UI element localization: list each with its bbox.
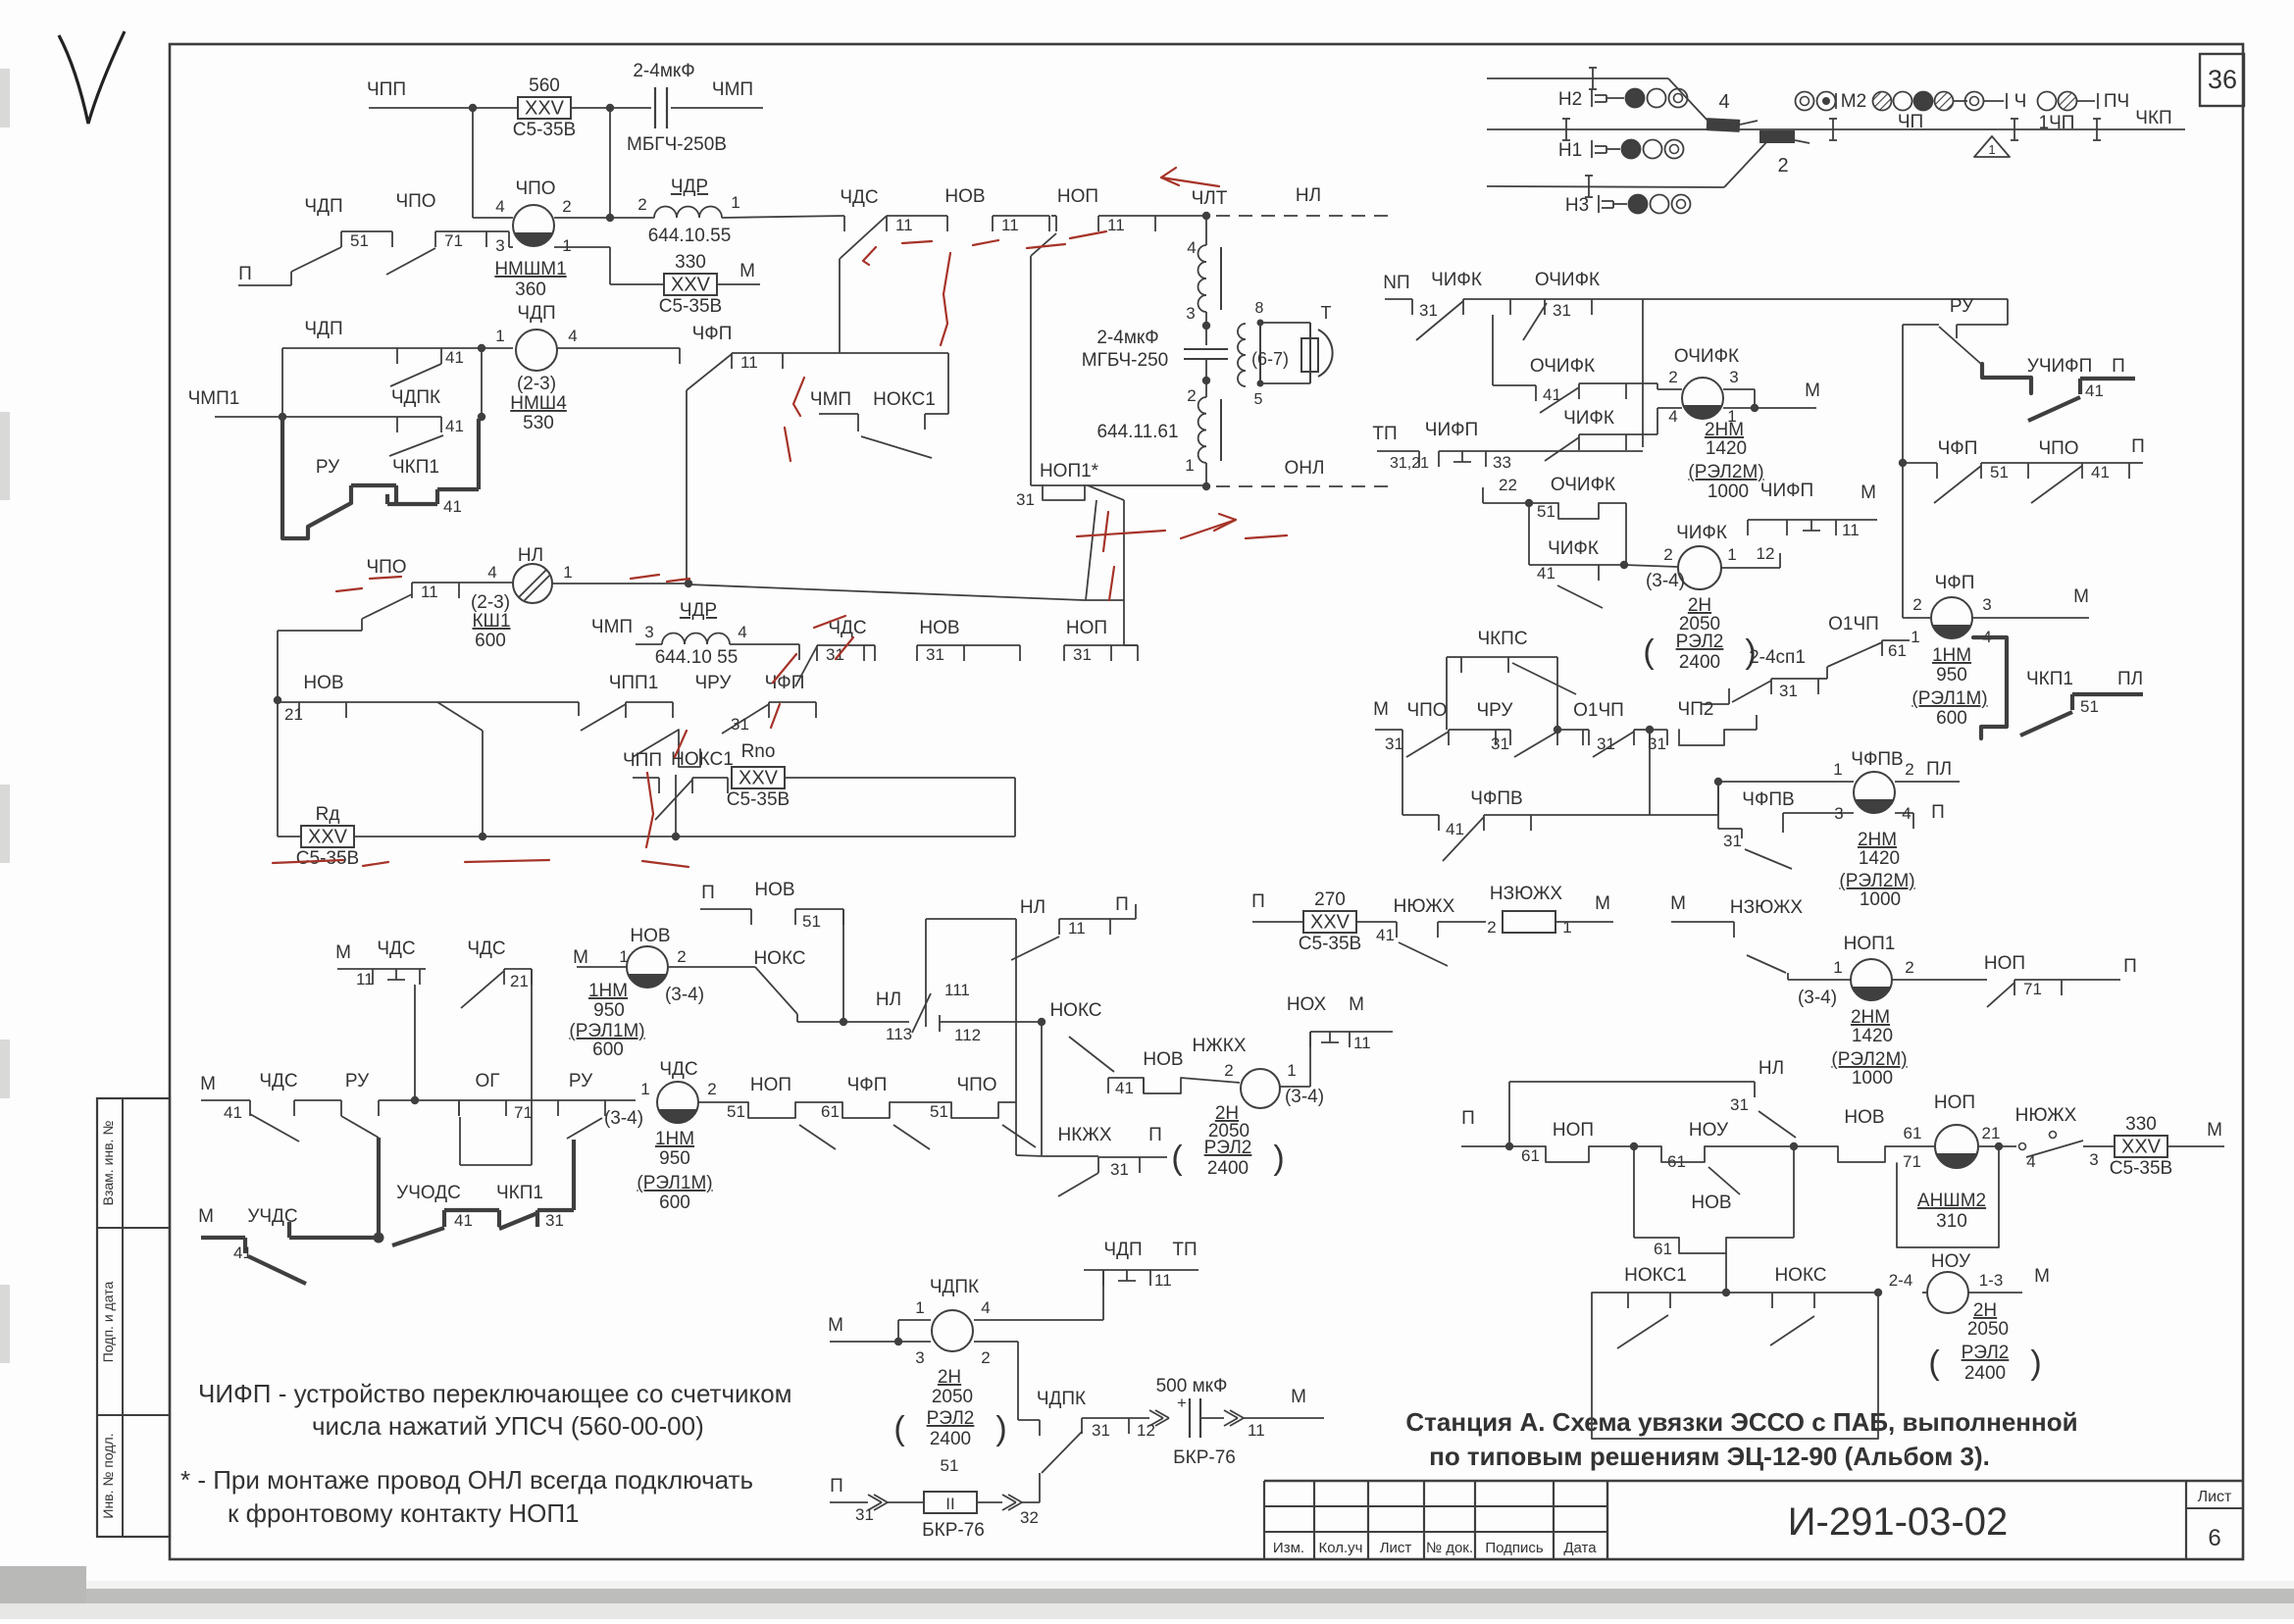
svg-text:51: 51 [727, 1102, 745, 1121]
junction after НОП 21 [1978, 1145, 1999, 1147]
svg-text:2400: 2400 [1679, 652, 1720, 673]
wire НЖКХ pin 1 to НОХ [1280, 1086, 1310, 1088]
svg-text:2: 2 [1224, 1061, 1233, 1080]
wire relay ЧДП pin 4 to ЧФП 11 [557, 347, 680, 349]
svg-text:2: 2 [637, 195, 646, 214]
svg-text:8: 8 [1255, 300, 1264, 317]
svg-text:41: 41 [2085, 381, 2104, 400]
svg-text:УЧИФП: УЧИФП [2027, 356, 2093, 377]
wire NП [1385, 298, 1412, 300]
junction НЛ blade [1790, 1142, 1798, 1150]
svg-text:ЧФП: ЧФП [1938, 438, 1978, 459]
svg-text:П: П [1251, 891, 1265, 912]
transformer secondary coil 6-7 with dots 8 and 5 [1238, 324, 1246, 386]
wire М [337, 968, 373, 970]
svg-text:560: 560 [529, 76, 560, 96]
svg-text:51: 51 [1537, 502, 1555, 521]
junction НОП-НОУ [1589, 1145, 1634, 1147]
wire ЧФП pin 3 to М [1973, 617, 2089, 619]
junction ЧИФК-41 [1599, 564, 1624, 566]
svg-text:ЧДС: ЧДС [840, 187, 878, 208]
svg-text:(2-3): (2-3) [471, 592, 510, 613]
red diagonals at ЧДС-31 [773, 654, 796, 683]
svg-text:644.11.61: 644.11.61 [1096, 422, 1178, 442]
signal 1ЧП [2038, 92, 2057, 111]
riser dot2 down to НКЖХ row [1041, 1022, 1043, 1155]
svg-text:500 мкФ: 500 мкФ [1156, 1376, 1228, 1396]
svg-text:НОВ: НОВ [754, 880, 794, 900]
svg-text:41: 41 [445, 348, 464, 367]
scan artifact gray bands at bottom edge [0, 1581, 2294, 1619]
svg-text:270: 270 [1314, 889, 1346, 910]
junction ОНЛ node [1205, 463, 1207, 486]
wire ЧДПК pin 2 down [974, 1341, 1018, 1343]
svg-text:ПЛ: ПЛ [2117, 669, 2143, 689]
svg-text:1НМ: 1НМ [588, 981, 628, 1001]
svg-text:НЮЖХ: НЮЖХ [2015, 1105, 2077, 1126]
svg-text:(РЭЛ1М): (РЭЛ1М) [637, 1173, 712, 1193]
svg-text:С5-35В: С5-35В [1299, 934, 1361, 954]
svg-text:Лист: Лист [1380, 1540, 1412, 1556]
svg-text:32: 32 [1020, 1508, 1039, 1527]
triangle marker 1 [1974, 136, 2010, 157]
svg-text:(РЭЛ1М): (РЭЛ1М) [569, 1021, 644, 1041]
svg-text:1: 1 [1287, 1061, 1296, 1080]
title block table [1264, 1480, 2243, 1482]
bold path ЧФП pin 4 to ЧКП1 [1973, 637, 2007, 738]
wire up to ЧДПК-31 blade [1022, 1501, 1040, 1503]
svg-text:НЮЖХ: НЮЖХ [1394, 896, 1455, 917]
svg-text:360: 360 [515, 279, 546, 300]
riser left to НОВ 21 [277, 631, 279, 700]
svg-text:61: 61 [1904, 1124, 1922, 1142]
svg-text:ЧДП: ЧДП [517, 303, 555, 324]
svg-text:2-4сп1: 2-4сп1 [1749, 647, 1806, 668]
svg-text:4: 4 [1902, 804, 1911, 823]
svg-text:ЧПО: ЧПО [956, 1075, 996, 1095]
svg-text:644.10.55: 644.10.55 [648, 226, 732, 246]
svg-text:ЧРУ: ЧРУ [695, 673, 733, 693]
wire ЧФП-11 bar to НОКС1 riser [783, 352, 948, 354]
riser to ЧИФП-33 [1642, 299, 1644, 447]
contact НОКС [1772, 1292, 1814, 1294]
svg-text:330: 330 [2125, 1114, 2157, 1135]
svg-text:М: М [739, 261, 755, 281]
svg-text:41: 41 [1446, 820, 1464, 838]
wire to relay ЧПО pin 3 [486, 230, 509, 232]
svg-text:ЧРУ: ЧРУ [1477, 700, 1514, 721]
svg-text:П: П [2112, 356, 2125, 377]
svg-text:П: П [1931, 802, 1945, 823]
node ЧЛТ [1202, 212, 1210, 220]
svg-text:по типовым решениям ЭЦ-12-90 (: по типовым решениям ЭЦ-12-90 (Альбом 3). [1429, 1442, 1990, 1471]
junction ЧДПК left [894, 1338, 902, 1345]
svg-text:11: 11 [421, 583, 438, 601]
riser to ЧИФК-41 row [1625, 503, 1627, 565]
svg-text:(3-4): (3-4) [1646, 571, 1685, 591]
wire to НЮЖХ [1356, 921, 1397, 923]
svg-text:(РЭЛ2М): (РЭЛ2М) [1839, 871, 1914, 891]
svg-text:(РЭЛ2М): (РЭЛ2М) [1831, 1049, 1907, 1070]
АНШМ2 bottom loop [1897, 1146, 1999, 1247]
svg-text:НЛ: НЛ [1296, 185, 1321, 206]
svg-text:(3-4): (3-4) [1285, 1087, 1324, 1107]
svg-text:41: 41 [443, 497, 462, 516]
big U loop bottom [1592, 1293, 1878, 1439]
svg-text:М: М [200, 1074, 216, 1094]
svg-text:НОКС1: НОКС1 [671, 749, 734, 770]
svg-text:XXV: XXV [308, 827, 348, 848]
svg-text:НМШ4: НМШ4 [510, 393, 567, 414]
wire to tall riser [998, 1101, 1016, 1103]
svg-text:2: 2 [1905, 760, 1913, 779]
svg-text:ЧИФП: ЧИФП [1760, 481, 1813, 501]
svg-text:М: М [1595, 893, 1610, 914]
svg-text:ЧДС: ЧДС [659, 1059, 697, 1080]
svg-text:12: 12 [1137, 1421, 1155, 1440]
svg-text:С5-35В: С5-35В [727, 789, 790, 810]
svg-text:3: 3 [1729, 368, 1738, 386]
rail joint lower track [1588, 176, 1590, 197]
svg-text:М: М [2034, 1266, 2050, 1287]
svg-text:41: 41 [233, 1243, 252, 1262]
svg-text:1: 1 [915, 1298, 924, 1317]
svg-text:51: 51 [941, 1456, 959, 1475]
riser ЧП2 dot to ЧФПВ row [1649, 730, 1651, 815]
svg-text:22: 22 [1499, 476, 1517, 494]
blade and riser НОП 11 to НОП1 [1031, 233, 1056, 256]
wire М to relay ЧДПК [830, 1341, 898, 1343]
riser НОВ-21 node to Rд [277, 700, 279, 837]
svg-text:4: 4 [568, 327, 577, 345]
capacitor 2-4мкФ МБГЧ-250В [654, 87, 656, 128]
wire ЧФПВ pin 3 [1782, 813, 1784, 833]
svg-text:Инв. № подл.: Инв. № подл. [100, 1433, 116, 1518]
svg-text:ЧДС: ЧДС [467, 939, 505, 959]
svg-text:РУ: РУ [316, 457, 340, 478]
svg-text:ЧИФК: ЧИФК [1548, 538, 1599, 559]
svg-text:3: 3 [1834, 804, 1843, 823]
resistor 560 XXV С5-35В [518, 97, 571, 119]
svg-text:530: 530 [523, 413, 554, 433]
wire to contact ЧДП 41 [282, 347, 397, 349]
svg-text:31: 31 [1723, 832, 1742, 850]
svg-text:П: П [701, 883, 715, 903]
bottom wire to НКЖХ 31 [1016, 1155, 1044, 1156]
contact ЧПО 71 (open) [386, 248, 435, 275]
svg-text:П: П [2131, 436, 2145, 457]
svg-text:2: 2 [1663, 545, 1672, 564]
svg-text:ОЧИФК: ОЧИФК [1674, 346, 1739, 367]
svg-text:БКР-76: БКР-76 [1173, 1447, 1236, 1468]
bold riser РУ down [377, 1138, 381, 1238]
svg-text:НОП: НОП [1984, 953, 2025, 974]
svg-text:1420: 1420 [1859, 848, 1900, 869]
red arrow at ОНЛ [1077, 531, 1165, 536]
wires to telephone symbol Т [1260, 322, 1310, 324]
riser НОВ-51 to НОКС junction [842, 909, 844, 1022]
svg-text:ЧПО: ЧПО [1406, 700, 1447, 721]
contact 22 [1482, 487, 1484, 503]
wire ЧПО-11 to relay НЛ [459, 582, 513, 584]
svg-text:ЧПП: ЧПП [367, 79, 406, 100]
svg-text:31: 31 [1553, 301, 1571, 320]
svg-text:РЭЛ2: РЭЛ2 [927, 1408, 975, 1429]
arrow marks 31 [868, 1495, 882, 1502]
svg-text:2Н: 2Н [938, 1367, 961, 1388]
wire relay НЛ pin 1 to junction [552, 583, 687, 584]
blade НОУ [1708, 1167, 1740, 1194]
junction НОКС right [1038, 1018, 1045, 1026]
svg-text:XXV: XXV [2121, 1137, 2162, 1158]
svg-text:ЧПП: ЧПП [623, 750, 662, 771]
svg-text:НЛ: НЛ [518, 545, 543, 566]
svg-text:41: 41 [1376, 926, 1395, 944]
svg-text:(3-4): (3-4) [604, 1108, 643, 1129]
svg-text:ЧДП: ЧДП [1103, 1240, 1142, 1260]
svg-text:ЧИФК: ЧИФК [1431, 270, 1482, 290]
svg-text:1: 1 [495, 327, 504, 345]
svg-text:6: 6 [2208, 1525, 2220, 1551]
svg-text:НОВ: НОВ [944, 186, 985, 207]
svg-text:113: 113 [886, 1025, 912, 1043]
svg-text:2-4мкФ: 2-4мкФ [1096, 328, 1158, 348]
wire to ЧФПВ relay junction [1650, 814, 1718, 816]
svg-text:2Н: 2Н [1973, 1300, 1997, 1321]
svg-text:ЧФП: ЧФП [1935, 573, 1975, 593]
svg-text:11: 11 [895, 216, 913, 234]
svg-text:Кол.уч: Кол.уч [1319, 1540, 1363, 1556]
junction М ОЧИФК [1751, 404, 1759, 412]
svg-text:Rд: Rд [316, 804, 340, 825]
svg-text:М: М [1805, 381, 1820, 401]
sheet number box [2185, 1481, 2187, 1559]
svg-text:ЧКП1: ЧКП1 [2026, 669, 2073, 689]
svg-text:(: ( [1928, 1345, 1940, 1382]
rail joint middle right of switch 2 [1832, 119, 1834, 140]
svg-text:Подп. и дата: Подп. и дата [100, 1282, 116, 1363]
svg-text:1: 1 [1833, 760, 1842, 779]
svg-text:ЧМП1: ЧМП1 [188, 388, 240, 409]
svg-text:ЧЛТ: ЧЛТ [1192, 188, 1228, 209]
svg-text:НЖКХ: НЖКХ [1192, 1036, 1246, 1056]
wire resistor to capacitor [571, 107, 651, 109]
svg-text:НОП: НОП [1553, 1120, 1594, 1141]
svg-text:ОЧИФК: ОЧИФК [1551, 475, 1615, 495]
svg-text:4: 4 [981, 1298, 990, 1317]
svg-text:XXV: XXV [1310, 912, 1351, 934]
svg-text:3: 3 [2089, 1150, 2098, 1169]
red vertical wiggle at ЧДС [941, 253, 950, 345]
wire capacitor to ЧМП [671, 107, 763, 109]
svg-text:3: 3 [1982, 595, 1991, 614]
svg-text:(6-7): (6-7) [1251, 349, 1289, 369]
svg-text:1НМ: 1НМ [655, 1129, 694, 1149]
svg-text:ЧФП: ЧФП [765, 673, 805, 693]
svg-text:61: 61 [1654, 1240, 1672, 1258]
svg-text:Н3: Н3 [1565, 195, 1589, 216]
red dashes top row [1070, 231, 1106, 238]
junction ЧРУ-О1ЧП [1554, 726, 1561, 734]
junction to relay ЧДП pin 1 [441, 347, 482, 349]
svg-text:КШ1: КШ1 [472, 611, 510, 632]
svg-text:11: 11 [1842, 521, 1860, 539]
svg-text:950: 950 [1936, 665, 1967, 685]
svg-text:НОУ: НОУ [1689, 1120, 1729, 1141]
svg-text:НОВ: НОВ [1691, 1193, 1731, 1213]
svg-text:ЧКП: ЧКП [2135, 108, 2171, 128]
wire ОЧИФК-41 to relay pin 2 [1626, 382, 1657, 384]
svg-text:ЧПО: ЧПО [395, 191, 435, 212]
svg-text:51: 51 [1990, 463, 2009, 482]
svg-text:Изм.: Изм. [1273, 1540, 1304, 1556]
svg-text:ЧДПК: ЧДПК [391, 387, 440, 408]
svg-text:51: 51 [350, 231, 369, 250]
svg-text:600: 600 [659, 1193, 690, 1213]
svg-text:31: 31 [1073, 645, 1092, 664]
wire НЗЮЖХ to М [1555, 921, 1613, 923]
svg-text:ЧКП1: ЧКП1 [496, 1183, 543, 1203]
junction НЛ-1 [685, 580, 692, 587]
svg-text:НОП: НОП [1066, 618, 1107, 638]
wire riser from ЧДС blade [839, 259, 841, 353]
svg-text:НЗЮЖХ: НЗЮЖХ [1730, 897, 1804, 918]
long wire to НОП1 blade area [688, 584, 1084, 600]
junction ЧФПВ [1714, 778, 1722, 786]
svg-text:НОВ: НОВ [630, 926, 670, 946]
svg-text:Т: Т [1321, 303, 1332, 323]
svg-text:2050: 2050 [1967, 1319, 2009, 1340]
svg-text:1: 1 [1562, 918, 1571, 937]
wire ЧИФК pin 1 12 [1721, 567, 1780, 569]
svg-text:2: 2 [981, 1348, 990, 1367]
svg-text:11: 11 [356, 970, 374, 989]
blade ЧПО 51 [1002, 1125, 1036, 1147]
svg-text:31: 31 [1730, 1095, 1749, 1114]
svg-text:31: 31 [1110, 1160, 1129, 1179]
wire ЧДПК-31 to capacitor БКР-76 [1129, 1417, 1149, 1419]
svg-text:ЧМП: ЧМП [810, 389, 851, 410]
svg-text:ОЧИФК: ОЧИФК [1530, 356, 1595, 377]
blade ЧФП 61 [893, 1125, 930, 1149]
svg-text:М2: М2 [1841, 91, 1866, 112]
signal М2 [1796, 92, 1814, 111]
track line middle [1487, 128, 2185, 130]
scan artifact smudges left edge [0, 69, 10, 127]
junction at resistor 560 [469, 104, 477, 112]
svg-text:ЧПО: ЧПО [366, 557, 406, 578]
svg-text:2: 2 [1487, 918, 1496, 937]
svg-text:(3-4): (3-4) [1798, 988, 1837, 1008]
svg-text:М: М [1291, 1387, 1306, 1407]
red vertical НОП1* [1103, 512, 1108, 551]
svg-text:2Н: 2Н [1688, 595, 1711, 616]
svg-text:ЧДС: ЧДС [259, 1071, 297, 1091]
svg-text:С5-35В: С5-35В [296, 848, 359, 869]
contact НОКС1 [1628, 1292, 1670, 1294]
wire НОП1 pin 2 to НОП 71 [1892, 979, 1987, 981]
junction О1ЧП-ЧП2 [1646, 726, 1654, 734]
svg-text:ЧДПК: ЧДПК [930, 1277, 979, 1297]
rail joint upper track [1592, 68, 1594, 89]
wire to НЛ 113-112 [843, 1021, 909, 1023]
dashed wire ОНЛ [1216, 485, 1393, 487]
svg-text:11: 11 [1068, 919, 1086, 938]
svg-text:1-3: 1-3 [1979, 1271, 2004, 1290]
svg-text:71: 71 [514, 1103, 533, 1122]
wire НОП to ЧЛТ [1155, 215, 1204, 217]
riser РУ to ЧФП relay [1902, 463, 1904, 608]
svg-text:+: + [1177, 1394, 1187, 1412]
svg-text:1: 1 [731, 193, 739, 212]
svg-text:2НМ: 2НМ [1705, 420, 1744, 440]
wire to М [2167, 1145, 2224, 1147]
svg-text:ЧФПВ: ЧФПВ [1851, 749, 1903, 770]
wire relay ЧДС pin 2 [698, 1101, 748, 1103]
svg-text:111: 111 [944, 981, 970, 999]
svg-text:М: М [1373, 699, 1389, 720]
svg-text:(: ( [1643, 634, 1655, 671]
svg-text:* - При монтаже провод ОНЛ все: * - При монтаже провод ОНЛ всегда подклю… [180, 1465, 753, 1495]
svg-text:41: 41 [445, 417, 464, 435]
svg-text:Дата: Дата [1563, 1540, 1597, 1556]
svg-text:ЧМП: ЧМП [712, 79, 753, 100]
svg-text:41: 41 [2091, 463, 2110, 482]
svg-text:П: П [2123, 956, 2137, 977]
junction П [1505, 1142, 1513, 1150]
svg-text:31,21: 31,21 [1390, 455, 1429, 472]
wire 22 to junction [1483, 502, 1529, 504]
svg-text:НОКС1: НОКС1 [873, 389, 936, 410]
svg-text:2: 2 [677, 947, 686, 966]
svg-text:1: 1 [1833, 958, 1842, 977]
bold path РУ-ЧКП1 [282, 417, 351, 538]
wire to ЧПП1 [346, 701, 579, 703]
resistor 330 XXV С5-35В right [2115, 1136, 2167, 1157]
wire to relay ЧФПВ pin 1 [1718, 781, 1854, 783]
svg-text:51: 51 [802, 912, 821, 931]
junction pin2 риser [606, 214, 614, 222]
wire relay НОВ pin 2 to НОКС [669, 966, 755, 968]
svg-text:950: 950 [659, 1148, 690, 1169]
svg-text:РУ: РУ [1950, 296, 1974, 317]
svg-text:XXV: XXV [525, 98, 565, 120]
junction bottom 2 [672, 833, 680, 840]
left margin stamp column [97, 1098, 170, 1537]
svg-text:1000: 1000 [1708, 482, 1749, 502]
svg-text:П: П [1461, 1108, 1475, 1129]
svg-text:НОВ: НОВ [1844, 1107, 1884, 1128]
track line lower [1487, 186, 1724, 187]
svg-text:31: 31 [731, 715, 749, 734]
svg-text:М: М [2073, 586, 2089, 607]
tall riser 111 [926, 918, 1016, 920]
wire ЧДР to contact ЧДС [722, 216, 844, 218]
svg-text:НОП1*: НОП1* [1040, 461, 1099, 482]
svg-text:33: 33 [1493, 453, 1511, 472]
svg-text:№ док.: № док. [1426, 1540, 1473, 1556]
svg-text:ЧИФП - устройство переключающе: ЧИФП - устройство переключающее со счетч… [198, 1379, 792, 1408]
resistor 270 XXV С5-35В [1303, 911, 1356, 933]
svg-text:31: 31 [1092, 1421, 1110, 1440]
svg-text:NП: NП [1383, 273, 1409, 293]
svg-text:НКЖХ: НКЖХ [1057, 1125, 1111, 1145]
svg-text:НОХ: НОХ [1287, 994, 1327, 1015]
riser ЧФП-31 blade to bottom row [675, 775, 677, 837]
red arrow near ЧЛТ [1161, 168, 1219, 186]
svg-text:600: 600 [1936, 708, 1967, 729]
page number box 36 [2200, 54, 2244, 106]
